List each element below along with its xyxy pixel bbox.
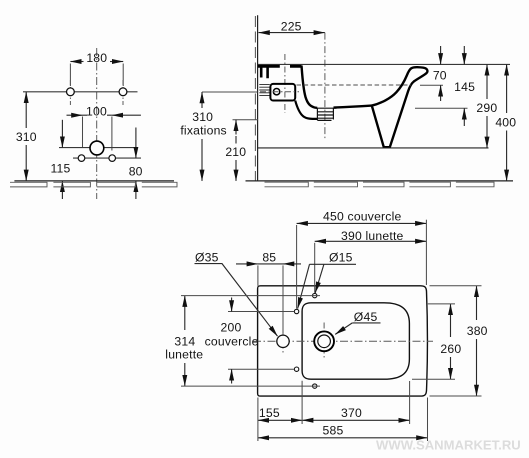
extension rect left edge bbox=[257, 265, 259, 285]
svg-text:lunette: lunette bbox=[165, 348, 203, 362]
hidden rim dashed line bbox=[297, 84, 412, 86]
lid hinge hole bottom bbox=[294, 367, 298, 371]
crosshair of tap hole bbox=[282, 330, 284, 353]
wall line bbox=[257, 15, 259, 181]
dimension 260 line bbox=[450, 304, 452, 337]
dimension 400 line bbox=[506, 64, 508, 113]
svg-text:100: 100 bbox=[86, 105, 107, 119]
drain trap V and front rim hook bbox=[372, 67, 428, 147]
lower hole right bbox=[109, 155, 116, 162]
dimension 390 lunette line bbox=[315, 240, 427, 242]
dimension 314 line bbox=[184, 296, 186, 330]
svg-text:115: 115 bbox=[50, 162, 70, 176]
dimension 310 line bbox=[25, 92, 27, 128]
bowl bottom line bbox=[334, 106, 372, 108]
dimension 80 upper line and arrow bbox=[135, 128, 137, 159]
svg-text:225: 225 bbox=[281, 19, 302, 33]
seat bowl outline bbox=[302, 303, 409, 379]
svg-text:Ø45: Ø45 bbox=[354, 310, 378, 324]
dimension 210 lower arrow bbox=[235, 160, 237, 181]
svg-text:314: 314 bbox=[174, 335, 195, 349]
extension line lid holes bbox=[296, 225, 298, 309]
extension line seat holes bbox=[314, 243, 316, 293]
dimension 100 extension lines bbox=[83, 117, 112, 151]
line through lower holes bbox=[73, 157, 141, 159]
fixation hole right bbox=[119, 88, 127, 96]
dimension 70 lower reference line bbox=[420, 84, 443, 86]
label O45 underline and leader bbox=[352, 322, 380, 324]
line through fixation holes bbox=[23, 91, 138, 93]
dimension 585 line bbox=[258, 437, 428, 439]
dimension 380 line bbox=[476, 286, 478, 320]
dimension 115 upper line and arrow bbox=[61, 120, 63, 148]
dimension 260 reference lines bbox=[412, 304, 455, 379]
svg-text:370: 370 bbox=[341, 406, 362, 420]
ceramic outline bbox=[258, 286, 428, 396]
dimension 200 reference lines bbox=[228, 312, 295, 370]
svg-text:200: 200 bbox=[221, 320, 242, 334]
crosshair of drain circle bbox=[323, 323, 325, 359]
drain ribs bbox=[317, 108, 333, 120]
drain hole circle bbox=[90, 141, 104, 155]
reference line at drain height bbox=[59, 147, 134, 149]
dimension 314 reference lines bbox=[181, 296, 320, 387]
svg-text:400: 400 bbox=[495, 116, 516, 130]
fixation hole left bbox=[67, 88, 75, 96]
seat hinge hole top bbox=[313, 293, 317, 297]
dimension 370 line bbox=[302, 419, 410, 421]
slot centerline bbox=[284, 54, 286, 113]
floor line side view bbox=[246, 180, 514, 182]
dimension 145 bottom arrow bbox=[463, 108, 465, 126]
water connector hatch bbox=[259, 84, 270, 95]
svg-text:couvercle: couvercle bbox=[205, 334, 259, 348]
dimension 200 outside arrows bbox=[231, 298, 233, 312]
label O15 underline and leaders bbox=[310, 263, 357, 265]
svg-text:310: 310 bbox=[192, 110, 213, 124]
dimension 85 line outside arrows bbox=[236, 263, 258, 265]
drain circle O45 inner bbox=[318, 335, 331, 348]
dimension 450 couvercle line bbox=[297, 222, 427, 224]
bowl inner left edge bbox=[302, 66, 318, 108]
inlet centerline horizontal bbox=[260, 91, 299, 93]
fixation height reference line bbox=[202, 91, 258, 93]
svg-text:80: 80 bbox=[129, 164, 143, 178]
drain centerline bbox=[324, 33, 326, 141]
seat hinge hole bottom bbox=[313, 384, 317, 388]
dimension 290 line bbox=[486, 64, 488, 99]
dimension 310 fixations line bbox=[201, 92, 203, 108]
svg-text:fixations: fixations bbox=[180, 124, 227, 138]
svg-text:Ø35: Ø35 bbox=[195, 251, 219, 265]
bottom extension lines bbox=[258, 381, 428, 441]
210 reference line bbox=[233, 119, 259, 121]
svg-text:180: 180 bbox=[86, 51, 107, 65]
dimension 180 extension lines bbox=[70, 64, 123, 87]
dimension 380 reference lines bbox=[430, 286, 482, 396]
inlet circle bbox=[273, 89, 279, 95]
svg-text:WWW.SANMARKET.RU: WWW.SANMARKET.RU bbox=[376, 438, 521, 453]
water inlet box bbox=[270, 84, 295, 101]
svg-text:85: 85 bbox=[262, 251, 276, 265]
svg-text:155: 155 bbox=[259, 406, 280, 420]
svg-text:290: 290 bbox=[476, 101, 497, 115]
mounting bracket ticks bbox=[261, 66, 267, 78]
svg-text:Ø15: Ø15 bbox=[329, 251, 353, 265]
skirt bottom line bbox=[258, 147, 489, 149]
dimension 155 line bbox=[258, 419, 302, 421]
svg-text:310: 310 bbox=[16, 130, 37, 144]
svg-text:585: 585 bbox=[323, 424, 344, 438]
floor hatch bricks left view bbox=[10, 182, 177, 187]
floor hatch bricks side view bbox=[265, 182, 495, 187]
svg-text:260: 260 bbox=[440, 342, 461, 356]
dimension 80 lower arrow bbox=[135, 181, 137, 199]
svg-text:210: 210 bbox=[225, 145, 246, 159]
fixation hole crosshairs bbox=[70, 80, 123, 105]
dimension 70 bottom arrow bbox=[440, 85, 442, 101]
dimension 100 line with outside arrows bbox=[67, 114, 83, 116]
floor line left view bbox=[14, 180, 174, 182]
dimension 210 upper arrow bbox=[235, 120, 237, 135]
label O35 underline and leader bbox=[195, 264, 278, 337]
top rim thick segments bbox=[258, 65, 302, 68]
extension line right edge bbox=[425, 220, 427, 285]
svg-text:70: 70 bbox=[433, 69, 447, 83]
centerline vertical left view bbox=[96, 48, 98, 199]
dimension 70 top arrow bbox=[440, 46, 442, 64]
svg-text:380: 380 bbox=[467, 324, 488, 338]
tap hole O35 bbox=[277, 335, 289, 347]
top rim thin line bbox=[258, 63, 510, 65]
extension tap hole bbox=[282, 265, 284, 333]
dimension 145 top arrow bbox=[463, 46, 465, 64]
dimension 115 lower arrow bbox=[61, 181, 63, 199]
lid hinge hole top bbox=[294, 309, 298, 313]
lower hole left bbox=[78, 155, 85, 162]
svg-text:145: 145 bbox=[454, 80, 475, 94]
center dash-dot horizontal bbox=[253, 340, 433, 342]
drain circle O45 outer bbox=[314, 331, 334, 351]
wall hatch bbox=[254, 16, 256, 181]
dimension 225 line bbox=[259, 32, 325, 34]
dimension 145 reference line bbox=[415, 107, 468, 109]
outer underside curve bbox=[295, 101, 317, 119]
svg-text:450 couvercle: 450 couvercle bbox=[323, 210, 402, 224]
dimension 180 line bbox=[70, 61, 83, 63]
